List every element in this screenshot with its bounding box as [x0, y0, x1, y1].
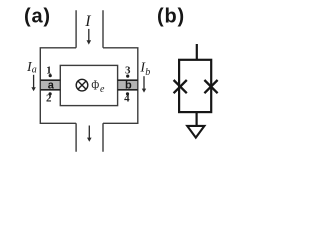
svg-text:a: a [32, 64, 37, 75]
svg-text:a: a [48, 80, 55, 92]
svg-text:b: b [125, 80, 132, 92]
svg-text:b: b [145, 67, 150, 78]
svg-text:(a): (a) [24, 5, 51, 27]
svg-text:2: 2 [46, 93, 52, 105]
svg-text:3: 3 [125, 65, 131, 77]
svg-text:1: 1 [46, 64, 52, 76]
svg-text:(b): (b) [157, 5, 185, 27]
svg-text:4: 4 [124, 92, 130, 104]
svg-text:I: I [84, 13, 91, 30]
svg-text:Φ: Φ [91, 79, 99, 94]
svg-text:e: e [100, 84, 105, 95]
